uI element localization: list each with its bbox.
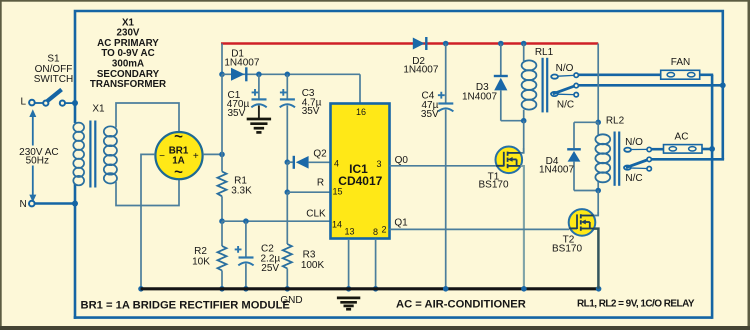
svg-text:35V: 35V <box>302 106 320 117</box>
svg-text:1N4007: 1N4007 <box>224 57 259 68</box>
svg-text:CD4017: CD4017 <box>338 174 382 188</box>
svg-text:10K: 10K <box>192 257 210 268</box>
wire reset row to pin 15 <box>287 191 330 193</box>
node L terminal <box>29 100 35 106</box>
svg-text:AC: AC <box>675 132 689 143</box>
svg-text:R3: R3 <box>303 249 316 260</box>
wire rail right end drop to RL2 <box>595 44 601 126</box>
wire T1 source to ground rail <box>521 166 527 292</box>
svg-text:RL2: RL2 <box>606 116 625 127</box>
wire Q1 to T2 gate <box>390 228 570 230</box>
svg-text:35V: 35V <box>228 108 246 119</box>
label R2 10K <box>192 246 210 268</box>
wire R3 bottom lead <box>285 269 291 292</box>
svg-text:RL1: RL1 <box>535 47 554 58</box>
diode Q2 (steering diode at pin 4) <box>285 156 331 169</box>
wire pin 8 to ground rail <box>373 239 379 292</box>
relay RL1 coil feed <box>521 41 527 61</box>
load AC <box>664 145 703 154</box>
diode D4 <box>567 122 598 190</box>
svg-text:14: 14 <box>332 219 342 229</box>
wire supply node column (BR1+ to D1) <box>221 74 223 154</box>
label GND <box>280 295 302 306</box>
resistor R1 <box>218 154 227 196</box>
wire D1 row <box>222 72 360 78</box>
wire N lead <box>35 201 78 207</box>
switch S1 <box>43 90 65 106</box>
wire secondary bottom to BR1 <box>116 179 179 205</box>
svg-text:3.3K: 3.3K <box>231 186 252 197</box>
wire L lead <box>35 102 43 104</box>
wire switch to frame <box>65 102 75 104</box>
relay RL2 coil <box>597 122 599 135</box>
wire pin 16 lead <box>359 74 361 103</box>
svg-text:Q2: Q2 <box>313 149 327 160</box>
label legend BR1 <box>81 300 291 312</box>
capacitor C2 <box>235 221 254 291</box>
svg-text:AC = AIR-CONDITIONER: AC = AIR-CONDITIONER <box>396 299 526 311</box>
bridge rectifier BR1 <box>155 129 202 181</box>
wire RL1 pole to live drop <box>579 84 723 87</box>
wire frame left lower (primary bottom to bottom rail) <box>74 184 77 319</box>
svg-text:2: 2 <box>381 224 386 234</box>
label D4 1N4007 <box>539 156 574 176</box>
ground symbol (rail) <box>337 298 360 309</box>
label T2 BS170 <box>552 234 582 254</box>
svg-text:N/C: N/C <box>557 100 574 111</box>
label N/O (RL2) <box>625 137 643 148</box>
wire Q0 to T1 gate <box>390 165 497 167</box>
wire RL2 N/O to AC <box>652 148 664 151</box>
wire R3 top lead <box>286 192 288 244</box>
label X1 transformer description <box>90 17 166 90</box>
label Q0 <box>395 155 409 166</box>
svg-text:1N4007: 1N4007 <box>539 165 574 176</box>
pin 3 <box>376 159 381 169</box>
label C2 2.2u 25V <box>261 244 281 274</box>
svg-text:4: 4 <box>334 159 339 169</box>
diode D2 <box>413 37 427 50</box>
node N terminal <box>29 201 35 207</box>
relay RL1 core <box>543 58 548 113</box>
arrow down (mains span) <box>29 166 36 203</box>
svg-text:TRANSFORMER: TRANSFORMER <box>90 79 166 90</box>
transistor T2 <box>569 209 596 236</box>
svg-text:BS170: BS170 <box>552 243 582 254</box>
label C3 4.7u 35V <box>302 88 322 117</box>
svg-text:+: + <box>193 151 199 162</box>
wire mains frame top (L rail) <box>75 11 723 103</box>
label R1 3.3K <box>231 175 252 196</box>
resistor R3 <box>283 244 292 269</box>
pin 15 <box>332 187 342 197</box>
transformer X1 primary coil <box>73 123 84 186</box>
label R3 100K <box>301 249 325 271</box>
label D2 1N4007 <box>403 56 438 76</box>
wire BR1 minus to ground rail <box>138 154 155 291</box>
transistor T1 <box>496 147 523 174</box>
label IC1 CD4017 <box>338 162 382 188</box>
label legend AC <box>396 299 526 311</box>
svg-text:N/O: N/O <box>556 63 574 74</box>
svg-text:16: 16 <box>356 107 366 117</box>
svg-text:−: − <box>159 151 165 162</box>
label Q1 <box>394 218 408 229</box>
transformer X1 secondary coil <box>104 126 117 183</box>
svg-text:1N4007: 1N4007 <box>403 65 438 76</box>
load FAN <box>661 70 700 79</box>
svg-text:R2: R2 <box>194 246 207 257</box>
capacitor C1 <box>251 74 266 118</box>
wire AC return <box>702 146 715 152</box>
label X1 <box>92 104 105 115</box>
svg-text:15: 15 <box>332 187 342 197</box>
svg-text:13: 13 <box>344 226 354 236</box>
relay RL1 coil <box>522 60 537 109</box>
svg-text:L: L <box>21 97 27 108</box>
svg-text:N: N <box>20 199 27 210</box>
ground rail <box>141 286 602 292</box>
label N/O (RL1) <box>556 63 574 74</box>
label legend RL1 RL2 <box>577 299 695 310</box>
svg-text:FAN: FAN <box>671 57 690 68</box>
wire BR1 plus to rail column <box>203 152 225 158</box>
ground (C1) <box>247 119 271 132</box>
svg-text:100K: 100K <box>301 260 325 271</box>
svg-text:Q0: Q0 <box>395 155 409 166</box>
label RL2 <box>606 116 625 127</box>
svg-text:25V: 25V <box>261 263 279 274</box>
label D3 1N4007 <box>462 82 497 102</box>
wire positive rail (red) <box>221 42 598 45</box>
wire T2 source to ground rail <box>594 229 599 289</box>
pin 4 <box>334 159 339 169</box>
label 230V AC 50Hz <box>19 147 58 167</box>
diode D3 <box>494 41 524 121</box>
label FAN <box>671 57 690 68</box>
label N/C (RL1) <box>557 100 574 111</box>
pin 14 <box>332 219 342 229</box>
label RL1 <box>535 47 554 58</box>
svg-text:BS170: BS170 <box>478 180 508 191</box>
svg-text:CLK: CLK <box>306 209 326 220</box>
wire RL2 pole to live drop <box>652 158 723 159</box>
svg-text:SWITCH: SWITCH <box>34 74 73 85</box>
wire T1 drain <box>521 148 524 153</box>
wire secondary top to BR1 <box>116 103 179 132</box>
svg-text:50Hz: 50Hz <box>26 156 49 167</box>
wire mains frame bottom (neutral) <box>74 316 712 319</box>
label AC <box>675 132 689 143</box>
label R <box>317 177 324 188</box>
wire live drop to relay poles <box>720 82 726 159</box>
wire R1 to CLK row <box>219 196 225 224</box>
label T1 BS170 <box>478 171 508 190</box>
svg-text:R: R <box>317 177 324 188</box>
capacitor C3 <box>280 74 295 162</box>
diode D1 <box>231 67 246 81</box>
pin 13 <box>344 226 354 236</box>
wire CLK row to pin 14 <box>222 218 331 224</box>
svg-text:N/C: N/C <box>625 173 642 184</box>
label Q2 <box>313 149 327 160</box>
pin 16 <box>356 107 366 117</box>
transformer X1 core <box>90 121 95 188</box>
wire RL2 coil bottom node <box>595 182 601 215</box>
resistor R2 <box>218 221 227 291</box>
label S1 ON/OFF SWITCH <box>34 54 73 85</box>
wire frame right (neutral riser to FAN/AC) <box>711 75 714 319</box>
wire RL1 N/O to FAN <box>579 74 661 77</box>
wire pin 13 to ground rail <box>346 239 352 292</box>
wire reset node column (Q2 node to R row) <box>285 162 291 195</box>
arrow up (mains span) <box>29 109 36 145</box>
label L <box>21 97 27 108</box>
label C1 470u 35V <box>227 90 250 119</box>
svg-text:~: ~ <box>174 164 183 181</box>
capacitor C4 <box>438 41 454 292</box>
svg-text:35V: 35V <box>421 109 439 120</box>
relay RL2 contacts <box>624 147 651 171</box>
wire RL1 coil bottom node <box>521 110 527 153</box>
svg-text:N/O: N/O <box>625 137 643 148</box>
svg-text:X1: X1 <box>92 104 105 115</box>
label N <box>20 199 27 210</box>
wire FAN return <box>700 74 714 77</box>
wire rail drop to D1 node <box>219 44 225 78</box>
svg-text:8: 8 <box>373 227 378 237</box>
IC U1 CD4017 <box>331 104 390 239</box>
label N/C (RL2) <box>625 173 642 184</box>
svg-text:~: ~ <box>174 129 183 146</box>
svg-text:Q1: Q1 <box>394 218 408 229</box>
svg-text:1N4007: 1N4007 <box>462 91 497 102</box>
pin 2 <box>381 224 386 234</box>
pin 8 <box>373 227 378 237</box>
wire switch junction to primary top <box>72 100 78 123</box>
wire T2 drain <box>594 212 599 216</box>
label C4 47u 35V <box>421 91 439 120</box>
relay RL2 core <box>615 132 620 186</box>
label CLK <box>306 209 326 220</box>
svg-text:3: 3 <box>376 159 381 169</box>
svg-text:RL1, RL2 = 9V, 1C/O RELAY: RL1, RL2 = 9V, 1C/O RELAY <box>577 299 695 310</box>
label D1 1N4007 <box>224 48 259 68</box>
svg-text:BR1 = 1A BRIDGE RECTIFIER MODU: BR1 = 1A BRIDGE RECTIFIER MODULE <box>81 300 291 312</box>
relay RL1 contacts <box>551 73 578 97</box>
